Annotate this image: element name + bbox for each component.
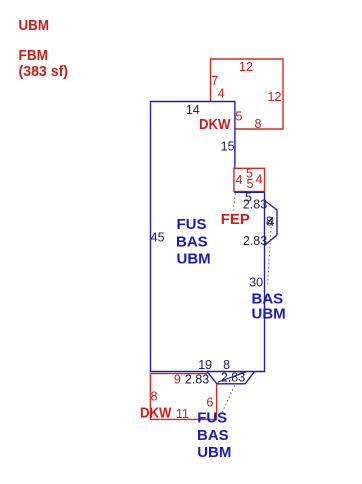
svg-text:DKW: DKW xyxy=(199,116,231,133)
svg-text:45: 45 xyxy=(151,230,165,244)
wall: blue segment under FEP xyxy=(234,191,264,193)
dashed connector from FEP to its label xyxy=(233,194,235,211)
wall outline: top-right red deck polygon xyxy=(211,59,284,129)
svg-text:FUS: FUS xyxy=(197,409,227,426)
svg-text:30: 30 xyxy=(249,275,263,289)
wall: main right edge (lower) xyxy=(264,192,266,372)
svg-text:UBM: UBM xyxy=(252,306,286,323)
svg-text:FBM: FBM xyxy=(19,47,49,64)
svg-text:8: 8 xyxy=(255,117,262,131)
svg-text:4: 4 xyxy=(267,215,274,229)
svg-text:UBM: UBM xyxy=(197,444,231,461)
wall: thin chord line through notch label xyxy=(218,372,247,383)
svg-text:12: 12 xyxy=(268,90,282,104)
svg-text:BAS: BAS xyxy=(176,233,208,250)
svg-text:BAS: BAS xyxy=(197,427,229,444)
svg-text:FEP: FEP xyxy=(221,211,250,228)
svg-text:2.83: 2.83 xyxy=(243,198,267,212)
dashed connector from notch to bottom label xyxy=(222,386,235,413)
svg-text:UBM: UBM xyxy=(19,17,50,34)
svg-text:5: 5 xyxy=(247,177,254,191)
dashed connector from bay to right label xyxy=(268,227,272,285)
svg-text:19: 19 xyxy=(198,358,212,372)
svg-text:6: 6 xyxy=(206,396,213,410)
svg-text:4: 4 xyxy=(236,173,243,187)
svg-text:UBM: UBM xyxy=(177,251,211,268)
svg-text:4: 4 xyxy=(218,87,225,101)
wall: bottom bay notch trapezoid xyxy=(207,372,255,384)
svg-text:2.83: 2.83 xyxy=(185,373,209,387)
svg-text:12: 12 xyxy=(239,60,253,74)
svg-text:8: 8 xyxy=(151,390,158,404)
wall outline: bottom red DKW polygon xyxy=(150,374,216,420)
svg-text:15: 15 xyxy=(221,140,235,154)
wall: main left edge xyxy=(150,101,152,372)
svg-text:2.83: 2.83 xyxy=(221,371,245,385)
wall: main top edge xyxy=(151,101,236,103)
svg-text:FUS: FUS xyxy=(177,216,207,233)
wall: main upper right edge xyxy=(234,101,236,169)
svg-text:11: 11 xyxy=(176,407,189,421)
svg-text:4: 4 xyxy=(256,173,263,187)
svg-text:2.83: 2.83 xyxy=(243,234,267,248)
wall: right bay bump polyline xyxy=(265,201,278,246)
wall: main bottom edge xyxy=(151,371,265,373)
svg-text:14: 14 xyxy=(186,103,200,117)
svg-text:(383 sf): (383 sf) xyxy=(19,63,69,80)
svg-text:DKW: DKW xyxy=(140,404,172,421)
wall outline: FEP red rectangle xyxy=(234,168,265,191)
svg-text:9: 9 xyxy=(174,373,181,387)
svg-text:5: 5 xyxy=(235,110,242,124)
